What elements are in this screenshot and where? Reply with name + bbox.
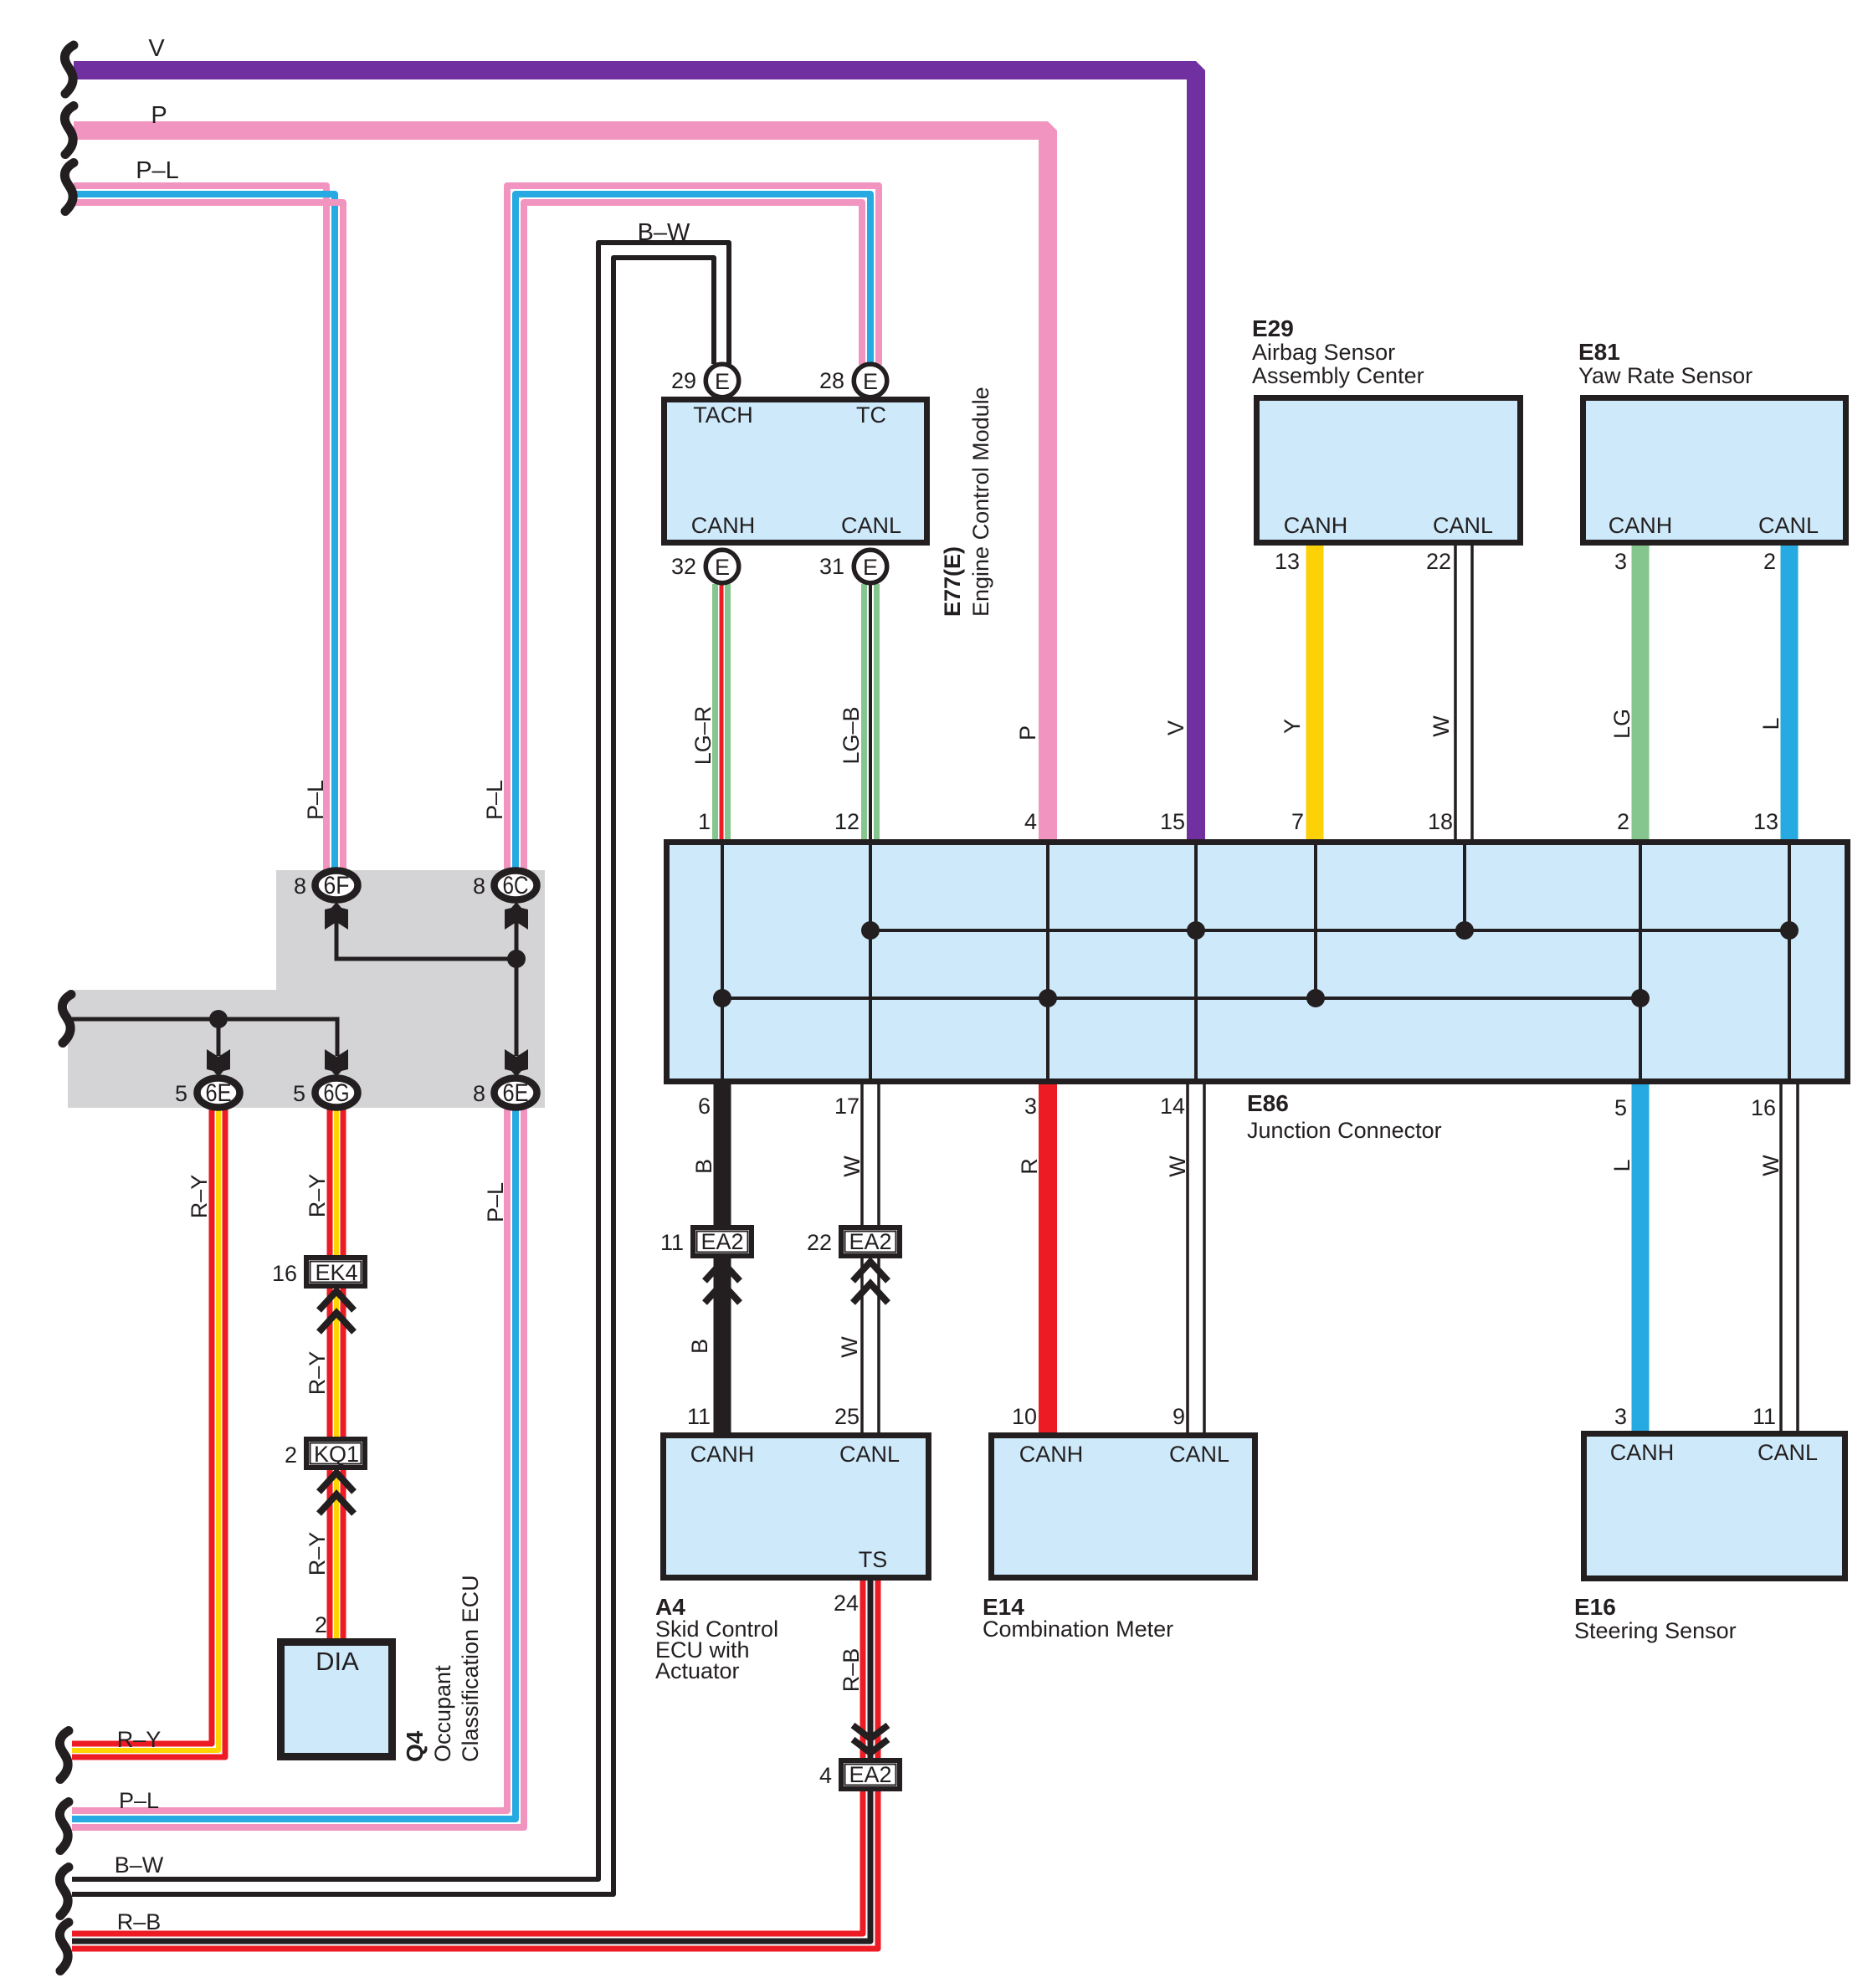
connector oval 6E right (495, 1079, 537, 1108)
junction dot pin15/CANL (1187, 921, 1205, 940)
junction dot below 6C (507, 950, 526, 968)
internal path pin 7 to CANH bus (1314, 843, 1317, 998)
brace wire V (64, 45, 74, 94)
svg-text:11: 11 (660, 1230, 684, 1255)
airbag sensor assembly center E29 box (1257, 398, 1521, 543)
svg-text:R–Y: R–Y (117, 1727, 162, 1752)
svg-text:CANH: CANH (1019, 1442, 1084, 1467)
wire LG-R from ECM pin 32 to E86 pin 1 (716, 584, 728, 840)
braces (59, 45, 74, 1971)
svg-text:6: 6 (698, 1094, 711, 1119)
svg-text:V: V (148, 35, 165, 62)
junction dot pin12/CANL (861, 921, 880, 940)
svg-text:8: 8 (473, 1081, 485, 1106)
connector oval 6F (316, 871, 358, 900)
svg-text:P–L: P–L (483, 1182, 508, 1222)
svg-text:2: 2 (315, 1612, 327, 1637)
svg-text:P–L: P–L (482, 780, 507, 820)
wire W from E86 pin 17 to A4 CANL pin 25 (862, 1084, 879, 1434)
connector EA2 pin 4 (841, 1725, 900, 1789)
svg-text:CANL: CANL (1433, 513, 1493, 538)
svg-text:Combination Meter: Combination Meter (983, 1617, 1173, 1642)
svg-text:W: W (1758, 1155, 1783, 1176)
connectors, circles, ovals, arrows (72, 364, 900, 1789)
svg-text:L: L (1609, 1159, 1634, 1171)
brace wire R-Y bottom (59, 1731, 69, 1780)
wire from left brace to 6G arrow (72, 1019, 337, 1056)
wire R-B from A4 pin 24 TS down to EA2 connector 4 (863, 1581, 878, 1760)
svg-text:2: 2 (1763, 549, 1776, 574)
brace wire B-W bottom (59, 1868, 69, 1916)
engine control module E77(E) box (665, 400, 927, 543)
svg-text:6C: 6C (503, 872, 529, 899)
wire R from E86 pin 3 to E14 CANH pin 10 (1039, 1084, 1057, 1434)
svg-text:5: 5 (175, 1081, 187, 1106)
wire R-Y from connector 6E left down to bottom brace (72, 1106, 225, 1757)
svg-text:5: 5 (293, 1081, 305, 1106)
wire P-L from connector 6C up and over to ECM pin 28 (507, 186, 879, 872)
ground circle E at ECM pin 31 (854, 550, 887, 583)
wire P-L from connector 6E down to bottom brace (72, 1106, 524, 1827)
svg-text:L: L (1758, 717, 1783, 730)
connector EA2 pin 11 (693, 1227, 752, 1303)
svg-text:LG–B: LG–B (839, 706, 864, 764)
svg-text:E86: E86 (1247, 1090, 1289, 1116)
harness wiring inside gray region (72, 920, 516, 1056)
CANL bus bar (870, 929, 1789, 932)
svg-text:CANH: CANH (1610, 1440, 1675, 1465)
svg-text:E: E (863, 555, 878, 580)
svg-text:EA2: EA2 (849, 1762, 891, 1787)
wire from 6F arrow down to junction (336, 920, 516, 959)
svg-text:3: 3 (1024, 1094, 1037, 1119)
svg-text:14: 14 (1160, 1094, 1185, 1119)
combination meter E14 box (992, 1436, 1255, 1578)
wire Y from E29 CANH pin 13 to E86 pin 7 (1306, 546, 1324, 840)
svg-text:P: P (1015, 725, 1040, 740)
internal path pin 18 to CANL bus (1463, 843, 1466, 930)
ground circle E at ECM pin 29 (706, 364, 739, 397)
svg-text:DIA: DIA (316, 1647, 359, 1676)
svg-text:Y: Y (1280, 719, 1305, 734)
wire P (pink) from brace to E86 pin 4 (74, 131, 1048, 840)
svg-text:15: 15 (1160, 809, 1185, 834)
svg-text:32: 32 (671, 554, 696, 579)
svg-text:CANL: CANL (1758, 513, 1819, 538)
junction dot pin18/CANL (1455, 921, 1474, 940)
wire from 6C arrow down to 6E arrow (515, 920, 519, 1056)
svg-text:R–Y: R–Y (305, 1174, 330, 1218)
svg-text:CANH: CANH (1609, 513, 1673, 538)
svg-text:CANL: CANL (1758, 1440, 1818, 1465)
connector oval 6E left (198, 1079, 240, 1108)
brace wire P-L top (64, 163, 74, 212)
ground circle E at ECM pin 28 (854, 364, 887, 397)
svg-text:2: 2 (1617, 809, 1629, 834)
svg-text:P–L: P–L (303, 780, 328, 820)
internal path pin 2 to pin 5 (1639, 843, 1642, 1081)
connector EK4 pin 16 (306, 1258, 365, 1332)
svg-text:B–W: B–W (115, 1852, 164, 1878)
svg-text:W: W (1429, 715, 1454, 737)
svg-text:CANL: CANL (841, 513, 901, 538)
svg-text:E: E (863, 369, 878, 394)
svg-text:22: 22 (807, 1230, 832, 1255)
gray harness region (68, 870, 545, 1108)
connector EA2 pin 22 (841, 1227, 900, 1303)
svg-text:5: 5 (1614, 1095, 1627, 1120)
svg-text:3: 3 (1614, 1404, 1627, 1429)
svg-text:EK4: EK4 (315, 1260, 357, 1285)
svg-text:R–B: R–B (839, 1648, 864, 1693)
wire R-B from bottom brace to EA2 connector 4 (72, 1790, 878, 1949)
svg-text:6G: 6G (324, 1079, 350, 1107)
svg-text:22: 22 (1426, 549, 1451, 574)
wire from junction down to 6E left arrow (217, 1019, 221, 1056)
svg-text:3: 3 (1614, 549, 1627, 574)
svg-text:CANL: CANL (1169, 1442, 1229, 1467)
svg-text:25: 25 (834, 1404, 860, 1429)
yaw rate sensor E81 box (1583, 398, 1846, 543)
svg-text:CANL: CANL (839, 1442, 900, 1467)
svg-text:18: 18 (1428, 809, 1453, 834)
svg-text:P: P (151, 102, 167, 129)
brace wire P-L bottom (59, 1802, 69, 1851)
arrow into 6E right (505, 1049, 528, 1077)
wire W from E86 pin 14 to E14 CANL pin 9 (1188, 1084, 1204, 1434)
brace gray region wire (62, 995, 71, 1043)
junction dot pin7/CANH (1306, 989, 1325, 1007)
brace wire P (64, 106, 74, 155)
junction dot pin2/CANH (1631, 989, 1650, 1007)
internal path pin 12 to pin 17 (869, 843, 872, 1081)
ground circle E at ECM pin 32 (706, 550, 739, 583)
svg-text:TACH: TACH (693, 402, 753, 428)
arrow into 6E left (207, 1049, 230, 1077)
svg-text:V: V (1163, 720, 1188, 735)
arrow into 6G (325, 1049, 348, 1077)
connector KQ1 pin 2 (306, 1439, 365, 1514)
junction dot pin13/CANL (1780, 921, 1799, 940)
junction dot on 6E/6G branch (209, 1010, 228, 1028)
svg-text:11: 11 (687, 1404, 711, 1429)
junction dot pin4/CANH (1039, 989, 1057, 1007)
svg-text:Steering Sensor: Steering Sensor (1574, 1618, 1737, 1643)
occupant classification ECU DIA box (281, 1642, 393, 1757)
svg-text:W: W (839, 1155, 865, 1177)
junction dot pin1/CANH (713, 989, 731, 1007)
svg-text:W: W (1165, 1155, 1190, 1177)
svg-text:4: 4 (819, 1763, 832, 1788)
svg-text:CANH: CANH (691, 513, 756, 538)
svg-text:EA2: EA2 (700, 1229, 743, 1254)
svg-text:11: 11 (1752, 1404, 1776, 1429)
svg-text:R–Y: R–Y (187, 1175, 212, 1219)
svg-text:CANH: CANH (690, 1442, 755, 1467)
arrow into 6F (325, 902, 348, 930)
internal path pin 15 to pin 14 (1194, 843, 1198, 1081)
svg-text:LG–R: LG–R (690, 706, 716, 766)
svg-text:29: 29 (671, 368, 696, 393)
svg-text:R–B: R–B (117, 1909, 162, 1934)
svg-text:13: 13 (1753, 809, 1778, 834)
svg-text:E: E (715, 555, 730, 580)
svg-text:Airbag Sensor: Airbag Sensor (1252, 340, 1395, 365)
wire L from E81 CANL pin 2 to E86 pin 13 (1781, 546, 1799, 840)
wire V (violet) from brace to E86 pin 15 (74, 70, 1196, 840)
svg-text:E: E (715, 369, 730, 394)
component boxes (281, 398, 1846, 1757)
E86 junction connector (667, 843, 1848, 1082)
svg-text:E81: E81 (1578, 339, 1620, 365)
wire W from E86 pin 16 to E16 CANL pin 11 (1781, 1084, 1798, 1432)
svg-text:B–W: B–W (638, 219, 690, 246)
svg-text:P–L: P–L (119, 1788, 159, 1813)
svg-text:R–Y: R–Y (305, 1351, 330, 1396)
junction connector E86 body (667, 843, 1848, 1082)
wire B-W double line from bottom brace up over to ECM pin 29 (72, 243, 729, 1894)
svg-text:17: 17 (834, 1094, 860, 1119)
svg-text:LG: LG (1609, 709, 1634, 739)
wire B from E86 pin 6 to A4 CANH pin 11 (714, 1084, 731, 1434)
wire LG-B from ECM pin 31 to E86 pin 12 (865, 584, 877, 840)
svg-text:Assembly Center: Assembly Center (1252, 363, 1424, 388)
svg-text:1: 1 (698, 809, 711, 834)
wire P-L branch to connector 6F (74, 186, 343, 872)
svg-text:16: 16 (272, 1261, 297, 1286)
wire R-Y from connector 6G through EK4 and KQ1 to DIA (330, 1106, 343, 1640)
svg-text:6E: 6E (503, 1079, 529, 1107)
svg-text:CANH: CANH (1284, 513, 1348, 538)
svg-text:E29: E29 (1252, 315, 1294, 341)
svg-text:R: R (1017, 1158, 1042, 1175)
wire W from E29 CANL pin 22 to E86 pin 18 (1455, 546, 1472, 840)
svg-text:13: 13 (1275, 549, 1300, 574)
svg-text:P–L: P–L (136, 157, 179, 184)
svg-text:W: W (837, 1336, 862, 1358)
svg-text:8: 8 (294, 874, 306, 899)
brace wire R-B bottom (59, 1923, 69, 1971)
wire L from E86 pin 5 to E16 CANH pin 3 (1632, 1084, 1650, 1432)
svg-text:28: 28 (819, 368, 844, 393)
skid control ECU A4 box (664, 1436, 929, 1578)
svg-text:TS: TS (859, 1547, 888, 1572)
svg-text:9: 9 (1173, 1404, 1185, 1429)
svg-text:12: 12 (834, 809, 860, 834)
svg-text:6F: 6F (324, 872, 350, 899)
svg-text:6E: 6E (206, 1079, 232, 1107)
svg-text:EA2: EA2 (849, 1229, 891, 1254)
svg-text:E16: E16 (1574, 1594, 1616, 1620)
svg-text:10: 10 (1012, 1404, 1037, 1429)
svg-text:16: 16 (1751, 1095, 1776, 1120)
internal path pin 4 to pin 3 (1046, 843, 1049, 1081)
svg-text:B: B (691, 1159, 716, 1174)
svg-text:KQ1: KQ1 (314, 1442, 359, 1467)
svg-text:8: 8 (473, 874, 485, 899)
internal path pin 1 to pin 6 (721, 843, 724, 1081)
svg-text:Actuator: Actuator (655, 1658, 740, 1683)
svg-text:24: 24 (834, 1591, 859, 1616)
wire LG from E81 CANH pin 3 to E86 pin 2 (1632, 546, 1650, 840)
svg-text:Yaw Rate Sensor: Yaw Rate Sensor (1578, 363, 1752, 388)
CANH bus bar (722, 997, 1640, 1000)
arrow into 6C (505, 902, 528, 930)
steering sensor E16 box (1584, 1434, 1845, 1579)
svg-text:Junction Connector: Junction Connector (1247, 1118, 1442, 1143)
svg-text:TC: TC (856, 402, 886, 428)
svg-text:B: B (687, 1339, 712, 1354)
svg-text:2: 2 (285, 1442, 297, 1468)
svg-text:7: 7 (1291, 809, 1304, 834)
svg-text:R–Y: R–Y (305, 1532, 330, 1576)
connector oval 6C (495, 871, 537, 900)
svg-text:4: 4 (1024, 809, 1037, 834)
connector oval 6G (316, 1079, 358, 1108)
internal path pin 13 to pin 16 (1788, 843, 1791, 1081)
svg-text:31: 31 (819, 554, 844, 579)
